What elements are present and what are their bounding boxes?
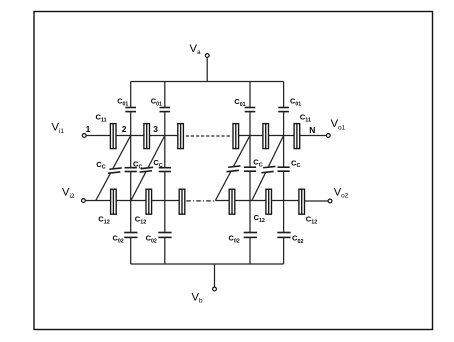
capacitor CC on v3	[244, 167, 256, 171]
svg-text:Vo2: Vo2	[334, 186, 349, 199]
diagonal 1 upper wire	[113, 136, 131, 169]
diagonal A lower wire	[215, 171, 231, 201]
wire v1 CC to C02	[130, 172, 132, 233]
diagonal B upper wire	[268, 136, 283, 168]
svg-text:1: 1	[86, 124, 91, 134]
terminal Vi2	[82, 199, 86, 203]
svg-text:C01: C01	[290, 96, 301, 107]
svg-text:2: 2	[122, 124, 127, 134]
svg-text:CC: CC	[96, 160, 105, 171]
svg-text:C02: C02	[113, 233, 124, 244]
svg-text:C11: C11	[300, 113, 311, 124]
capacitor C12 right (rect)	[299, 189, 305, 214]
svg-text:C12: C12	[254, 213, 265, 224]
top bus wire	[131, 81, 284, 83]
wire row2 seg3	[152, 200, 180, 202]
capacitor row2 #4 (rect)	[229, 189, 235, 214]
capacitor row1 #3 (rect)	[178, 124, 184, 149]
terminal Va	[205, 54, 209, 58]
svg-text:C01: C01	[234, 97, 245, 108]
capacitor C02 #2	[158, 233, 171, 238]
wire v4 CC to C02	[283, 171, 285, 232]
capacitor C02 #4	[277, 233, 290, 238]
capacitor C02 #3	[244, 233, 257, 238]
wire vertical v2 upper (bus to C01)	[164, 82, 166, 108]
svg-text:C01: C01	[117, 96, 128, 107]
wire v2 C01 to CC	[164, 112, 166, 167]
wire row2 seg6	[272, 200, 299, 202]
terminal Vb	[213, 287, 217, 291]
capacitor C01 #3	[245, 108, 256, 112]
svg-text:N: N	[309, 125, 315, 135]
svg-text:Vi2: Vi2	[62, 187, 75, 200]
wire v1 C02 to bottom bus	[130, 237, 132, 264]
wire row1 seg6 to output	[300, 135, 327, 137]
terminal Vo1	[326, 134, 330, 138]
svg-text:Vo1: Vo1	[331, 118, 346, 131]
diagonal 2 lower wire	[131, 171, 146, 200]
svg-text:CC: CC	[133, 160, 142, 171]
capacitor CC on diagonal 2	[140, 167, 154, 172]
capacitor row1 #4 (rect)	[233, 124, 239, 149]
wire row1 seg4	[239, 135, 263, 137]
wire v4 C02 to bottom bus	[283, 237, 285, 264]
wire v4 C01 to CC	[283, 112, 285, 167]
diagonal 2 upper wire	[148, 136, 165, 169]
capacitor CC on diagonal A	[227, 166, 241, 172]
capacitor C11 left (rect)	[110, 124, 116, 149]
wire v3 C02 to bottom bus	[249, 237, 251, 264]
svg-text:Vi1: Vi1	[52, 121, 65, 134]
svg-text:Vb: Vb	[192, 291, 203, 304]
capacitor CC on v2	[159, 168, 171, 172]
capacitor CC on v1	[125, 168, 137, 172]
svg-text:C12: C12	[306, 214, 317, 225]
svg-text:C12: C12	[98, 214, 109, 225]
wire vertical v4 upper (bus to C01)	[283, 82, 285, 108]
capacitor C11 right (rect)	[294, 124, 300, 149]
svg-text:C12: C12	[135, 214, 146, 225]
diagonal A upper wire	[233, 136, 250, 167]
terminal Vo2	[328, 199, 332, 203]
wire vertical v3 upper (bus to C01)	[249, 82, 251, 108]
wire row2 dash-dot continuation	[186, 200, 215, 202]
svg-text:CC: CC	[153, 158, 162, 169]
svg-text:C02: C02	[229, 233, 240, 244]
wire row1 seg5	[269, 135, 295, 137]
svg-text:CC: CC	[291, 158, 300, 169]
capacitor C01 #4	[278, 108, 289, 112]
capacitor C12 #2 (rect)	[146, 189, 152, 214]
wire row1 seg2	[116, 135, 144, 137]
wire row2 seg4	[215, 200, 229, 202]
wire Va to top bus	[206, 58, 208, 82]
wire row2 seg7 to output	[305, 200, 329, 202]
capacitor CC on diagonal B	[261, 166, 275, 172]
wire v2 C02 to bottom bus	[164, 237, 166, 264]
capacitor row1 #5 (rect)	[263, 124, 269, 149]
wire row2 seg5	[235, 200, 266, 202]
svg-text:C11: C11	[96, 113, 107, 124]
diagonal B lower wire	[252, 172, 266, 200]
svg-text:3: 3	[153, 124, 158, 134]
wire row2 seg2	[116, 200, 146, 202]
capacitor C01 #2	[160, 108, 171, 112]
wire row1 seg1	[86, 135, 110, 137]
wire row2 seg1	[85, 200, 110, 202]
capacitor C02 #1	[124, 233, 137, 238]
bottom bus wire	[131, 263, 284, 265]
wire Vb to bottom bus	[214, 264, 216, 287]
wire row1 dashed continuation	[186, 135, 232, 137]
capacitor C12 #1 (rect)	[111, 189, 117, 214]
wire v1 C01 to CC	[130, 112, 132, 167]
wire v3 CC to C02	[249, 171, 251, 232]
capacitor C01 #1	[125, 108, 136, 112]
capacitor CC on diagonal 1	[108, 168, 122, 173]
capacitor row1 #2 (rect)	[144, 124, 150, 149]
svg-text:C02: C02	[292, 234, 303, 245]
svg-text:C01: C01	[151, 96, 162, 107]
wire row1 seg3	[150, 135, 178, 137]
diagonal 1 lower wire	[96, 173, 111, 201]
svg-text:Va: Va	[190, 43, 201, 56]
capacitor row2 #5 (rect)	[266, 189, 272, 214]
svg-text:C02: C02	[146, 233, 157, 244]
capacitor row2 #3 (rect)	[179, 189, 185, 214]
wire v3 C01 to CC	[249, 112, 251, 167]
wire v2 CC to C02	[164, 172, 166, 233]
capacitor CC on v4	[278, 167, 290, 171]
terminal Vi1	[82, 134, 86, 138]
wire vertical v1 upper (bus to C01)	[130, 82, 132, 108]
